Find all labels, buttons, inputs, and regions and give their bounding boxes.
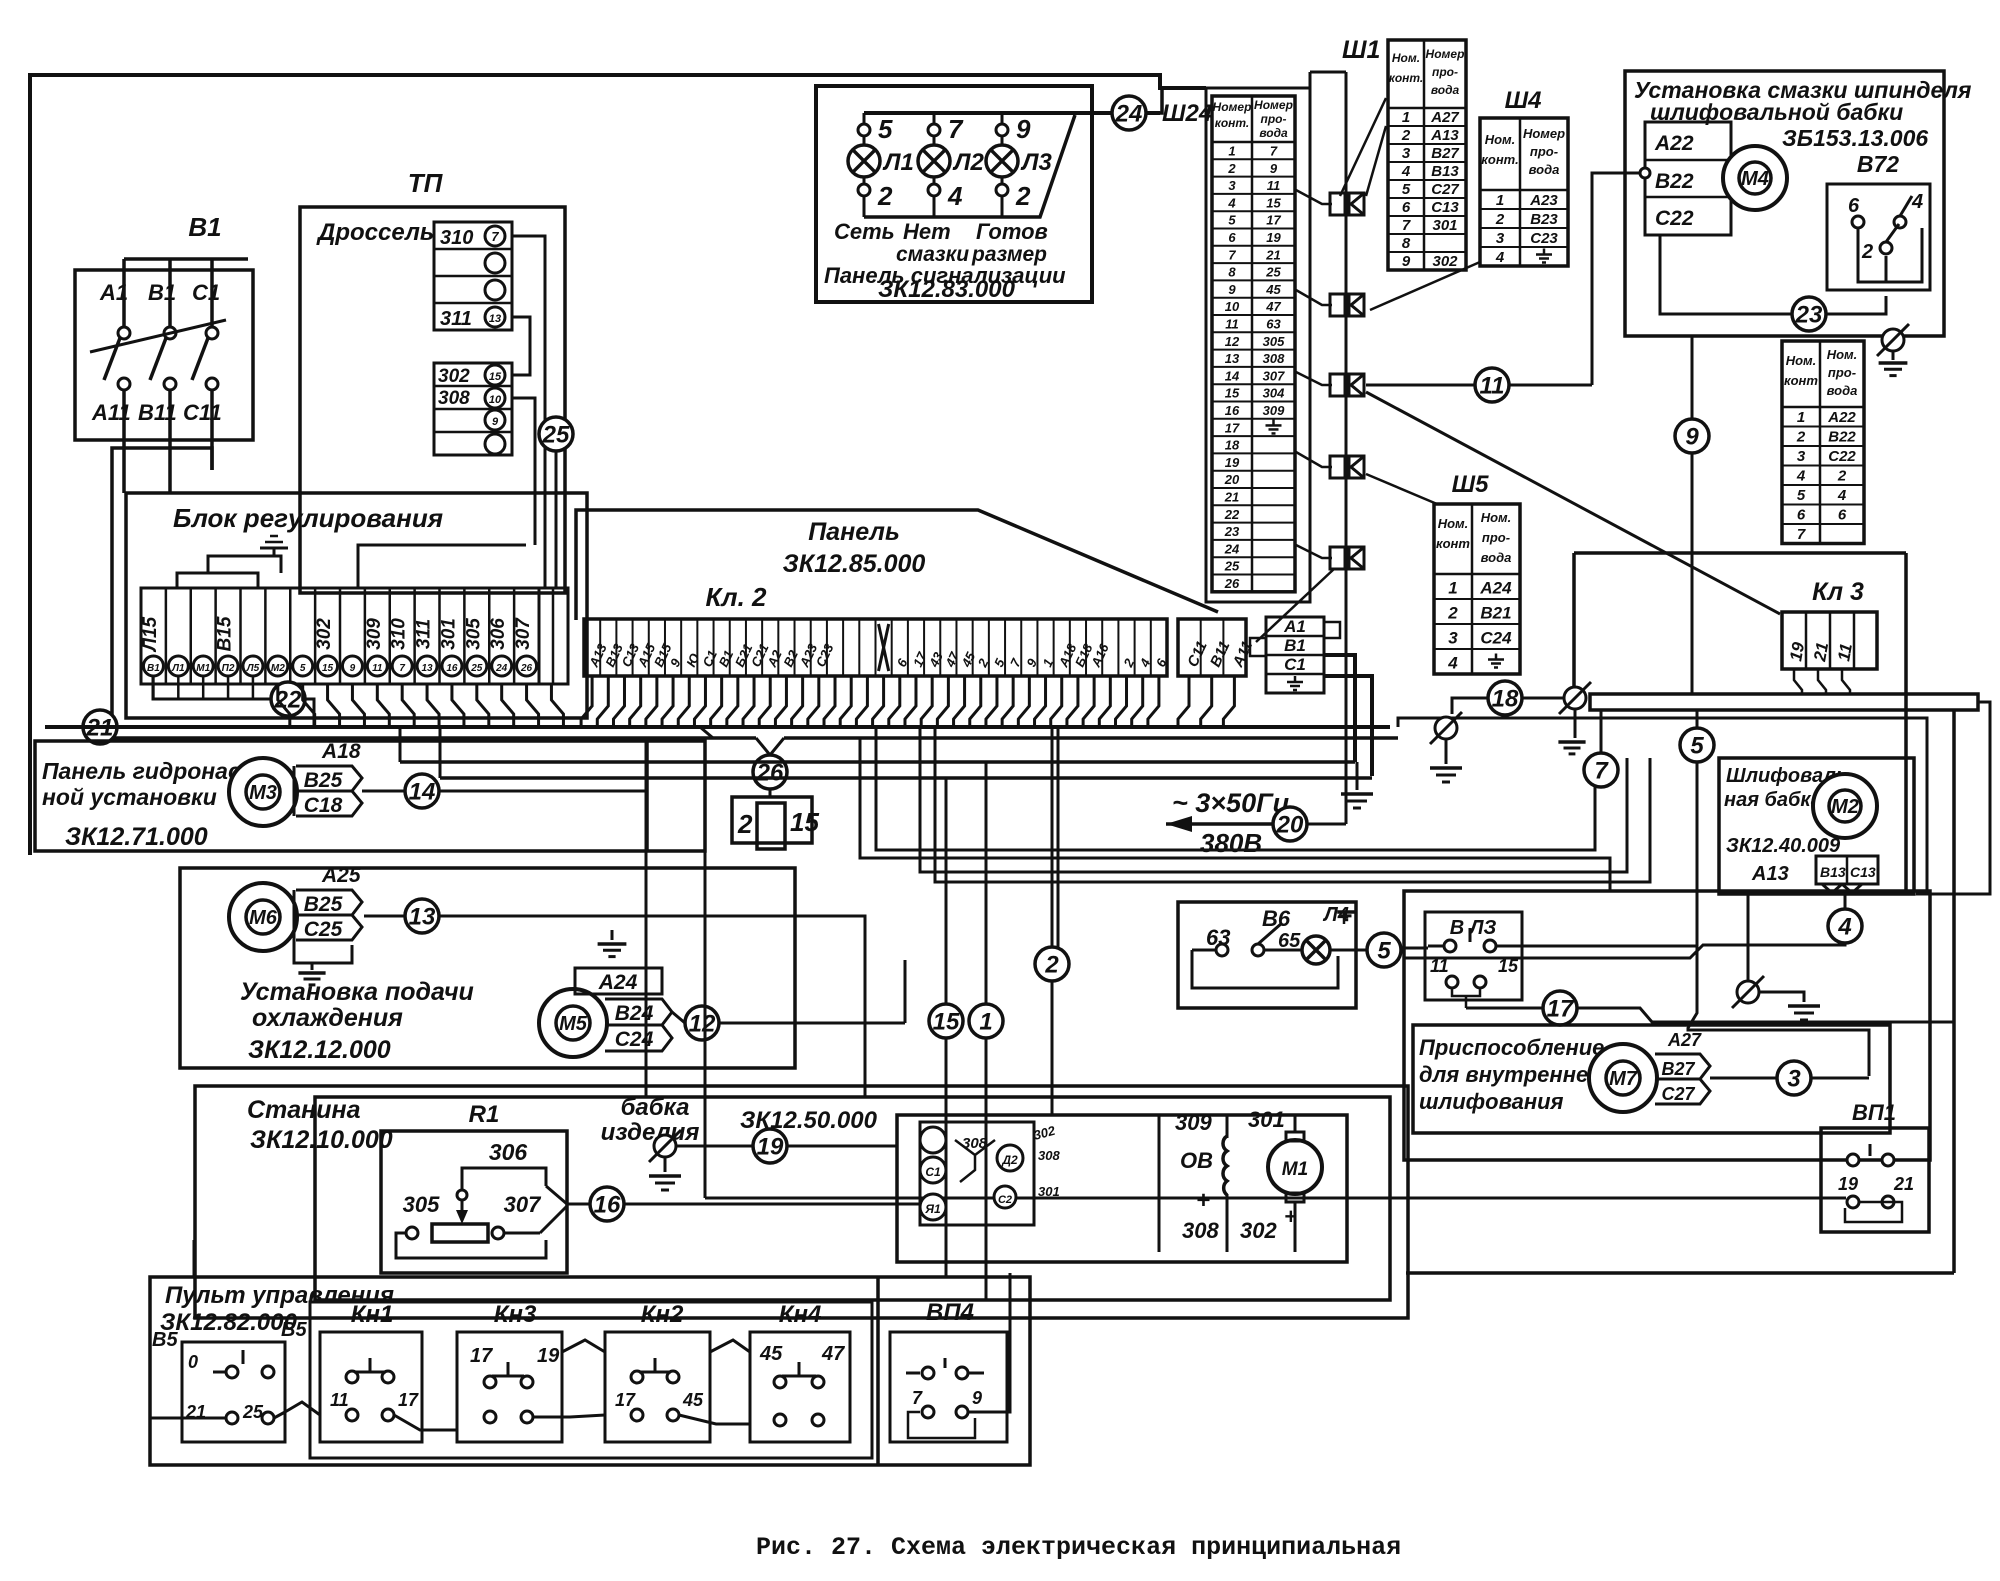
svg-text:9: 9 <box>350 663 356 674</box>
svg-text:308: 308 <box>1182 1218 1219 1243</box>
wire VP4 riser <box>968 1273 1010 1412</box>
wire 19 run <box>676 1145 753 1148</box>
svg-text:302: 302 <box>1240 1218 1277 1243</box>
svg-text:С22: С22 <box>1655 207 1694 230</box>
svg-text:18: 18 <box>1225 438 1240 453</box>
svg-text:В5: В5 <box>281 1319 307 1341</box>
svg-text:11: 11 <box>1267 178 1281 193</box>
svg-text:12: 12 <box>1225 334 1240 349</box>
svg-text:Л1: Л1 <box>882 149 914 176</box>
terminal block A1/B1/C1 <box>1266 617 1324 693</box>
svg-text:4: 4 <box>1495 249 1505 266</box>
svg-text:В13: В13 <box>1431 163 1459 180</box>
svg-text:М1: М1 <box>196 663 210 674</box>
svg-text:В25: В25 <box>304 893 343 916</box>
svg-text:24: 24 <box>1224 541 1240 556</box>
svg-text:7: 7 <box>948 114 964 144</box>
svg-text:Ш1: Ш1 <box>1342 36 1380 64</box>
terminal circle 24 <box>492 656 512 676</box>
svg-text:311: 311 <box>414 619 435 649</box>
circle wire 19 <box>753 1129 787 1163</box>
terminal block A1 side tabs <box>1250 638 1266 656</box>
svg-text:М6: М6 <box>249 907 278 929</box>
connector pair 1 <box>1330 193 1345 215</box>
svg-text:для внутреннего: для внутреннего <box>1419 1062 1613 1087</box>
svg-text:301: 301 <box>1248 1107 1285 1132</box>
svg-text:С2: С2 <box>998 1194 1012 1206</box>
connector table Sh5 <box>1434 504 1520 674</box>
connector table Sh1 <box>1388 40 1466 270</box>
svg-text:2: 2 <box>1044 952 1059 979</box>
svg-text:17: 17 <box>1225 420 1240 435</box>
inductor coil <box>1223 1136 1227 1195</box>
connector pair 3 <box>1330 374 1345 396</box>
svg-text:9: 9 <box>1402 253 1411 270</box>
motor M5 <box>539 989 607 1057</box>
svg-text:5: 5 <box>1690 733 1704 760</box>
svg-text:А11: А11 <box>91 400 131 425</box>
svg-text:В1: В1 <box>188 212 221 242</box>
svg-text:11: 11 <box>1225 316 1239 331</box>
svg-text:М3: М3 <box>249 782 277 804</box>
terminal strip Kl2 right cells C11/B11/A11 <box>1178 619 1246 676</box>
wire 24 to Sh24 <box>1146 88 1162 113</box>
svg-text:С1: С1 <box>925 1165 941 1179</box>
svg-text:15: 15 <box>489 371 502 383</box>
svg-text:23: 23 <box>1795 302 1823 329</box>
wire 7 riser <box>1600 710 1603 753</box>
svg-text:Кн3: Кн3 <box>494 1301 537 1328</box>
svg-text:В27: В27 <box>1431 145 1459 162</box>
wire bottom long y1273 <box>1406 1271 1954 1275</box>
svg-text:А24: А24 <box>1479 579 1512 598</box>
svg-text:2: 2 <box>877 181 893 211</box>
svg-text:4: 4 <box>1911 191 1923 213</box>
svg-text:14: 14 <box>1225 368 1240 383</box>
circle wire 22 <box>271 682 305 716</box>
svg-text:2: 2 <box>1401 127 1411 144</box>
svg-text:С11: С11 <box>183 400 222 425</box>
svg-text:24: 24 <box>1115 101 1143 128</box>
ground above M5 <box>611 930 614 940</box>
ground slash B72 <box>1882 329 1904 351</box>
svg-text:18: 18 <box>1492 686 1519 713</box>
svg-text:7: 7 <box>1797 526 1806 543</box>
svg-text:14: 14 <box>409 779 436 806</box>
svg-text:Ном.: Ном. <box>1438 516 1469 531</box>
svg-text:3: 3 <box>1448 629 1458 648</box>
wire fan regulator strip to bus <box>152 676 155 699</box>
circle wire 18 <box>1488 681 1522 715</box>
svg-text:63: 63 <box>1266 316 1281 331</box>
svg-text:308: 308 <box>1263 351 1285 366</box>
wire 20 to risers <box>1307 823 1346 826</box>
svg-text:конт: конт <box>1436 536 1470 551</box>
svg-text:4: 4 <box>1227 195 1236 210</box>
circle wire 7 <box>1584 753 1618 787</box>
svg-text:19: 19 <box>1838 1174 1858 1194</box>
svg-text:21: 21 <box>1265 247 1280 262</box>
leader lines Sh1 <box>1340 98 1386 196</box>
svg-text:2: 2 <box>1447 604 1458 623</box>
svg-text:конт.: конт. <box>1215 116 1250 130</box>
svg-text:Ш5: Ш5 <box>1452 471 1489 498</box>
terminal block TP lower (302/308) <box>434 363 512 455</box>
svg-text:305: 305 <box>403 1192 440 1217</box>
resistor R1 box <box>381 1131 567 1273</box>
field winding lines <box>1158 1115 1161 1252</box>
circle wire 11 <box>1475 368 1509 402</box>
svg-text:вода: вода <box>1431 83 1460 97</box>
svg-text:4: 4 <box>947 181 963 211</box>
svg-text:16: 16 <box>594 1192 621 1219</box>
svg-text:45: 45 <box>682 1390 704 1410</box>
svg-text:Приспособление: Приспособление <box>1419 1035 1604 1060</box>
svg-text:4: 4 <box>1837 487 1847 504</box>
circle wire 20 <box>1273 807 1307 841</box>
svg-text:ЗБ153.13.006: ЗБ153.13.006 <box>1782 125 1928 151</box>
wire 12 run <box>672 1012 685 1023</box>
svg-text:ОВ: ОВ <box>1180 1148 1213 1173</box>
svg-text:7: 7 <box>399 663 405 674</box>
svg-text:С24: С24 <box>1480 629 1512 648</box>
svg-text:А13: А13 <box>1751 863 1789 885</box>
svg-text:М5: М5 <box>559 1013 588 1035</box>
svg-text:16: 16 <box>446 663 458 674</box>
svg-text:ВП1: ВП1 <box>1852 1100 1896 1125</box>
workhead box <box>315 1097 1390 1300</box>
svg-text:Л5: Л5 <box>246 663 260 674</box>
svg-text:309: 309 <box>1175 1110 1212 1135</box>
svg-text:19: 19 <box>537 1345 560 1367</box>
svg-text:2: 2 <box>1837 468 1847 485</box>
svg-text:В27: В27 <box>1661 1059 1695 1079</box>
ground slash 19 wire <box>654 1135 676 1157</box>
svg-text:Л15: Л15 <box>140 616 161 653</box>
svg-text:19: 19 <box>1266 230 1281 245</box>
svg-text:2: 2 <box>1015 181 1031 211</box>
switch B1 box <box>75 270 253 440</box>
wire fan Kl2 to bus <box>581 676 592 727</box>
switch B72 wiring <box>1858 228 1922 282</box>
svg-text:15: 15 <box>1498 956 1519 976</box>
regulator top jumper boxes <box>177 573 258 588</box>
svg-text:1: 1 <box>1402 109 1410 126</box>
svg-text:11: 11 <box>330 1390 349 1410</box>
wire riser x705 <box>704 738 707 1198</box>
svg-text:А27: А27 <box>1667 1030 1702 1050</box>
svg-text:1: 1 <box>979 1009 992 1036</box>
svg-text:ЗК12.12.000: ЗК12.12.000 <box>248 1036 391 1064</box>
svg-text:Номер: Номер <box>1254 98 1293 112</box>
wire 13 run <box>364 915 405 918</box>
svg-text:Номер: Номер <box>1523 126 1565 141</box>
motor M3 <box>229 758 297 826</box>
console wiring <box>285 1402 320 1415</box>
wire box edge right <box>1904 553 1908 891</box>
svg-text:306: 306 <box>488 618 509 650</box>
svg-text:306: 306 <box>489 1139 528 1165</box>
wire 4 long run <box>1404 937 1845 958</box>
svg-text:Панель: Панель <box>808 518 900 546</box>
svg-text:305: 305 <box>1263 334 1285 349</box>
wire pair y778 <box>440 776 1372 780</box>
svg-text:2: 2 <box>1796 429 1806 446</box>
svg-text:9: 9 <box>1228 282 1236 297</box>
svg-text:26: 26 <box>1224 576 1240 591</box>
svg-text:17: 17 <box>615 1390 636 1410</box>
svg-text:15: 15 <box>1266 195 1281 210</box>
svg-text:М7: М7 <box>1609 1068 1638 1090</box>
svg-text:Л2: Л2 <box>952 149 984 176</box>
svg-text:311: 311 <box>440 308 472 330</box>
svg-text:вода: вода <box>1481 550 1512 565</box>
svg-text:Ном.: Ном. <box>1392 51 1420 65</box>
wire nest h1 <box>876 727 1595 850</box>
terminal block TP upper (310/311) <box>434 222 512 330</box>
svg-text:А25: А25 <box>321 864 361 887</box>
svg-text:М4: М4 <box>1741 168 1769 190</box>
terminal circle 9 <box>342 656 362 676</box>
svg-text:9: 9 <box>972 1388 982 1408</box>
svg-text:Л3: Л3 <box>1020 149 1052 176</box>
svg-text:конт: конт <box>1784 373 1818 388</box>
svg-text:10: 10 <box>489 394 502 406</box>
terminal circle В1 <box>143 656 163 676</box>
motor M6 <box>229 883 297 951</box>
svg-text:изделия: изделия <box>601 1119 700 1146</box>
svg-text:13: 13 <box>489 313 501 325</box>
svg-text:ЗК12.82.000: ЗК12.82.000 <box>160 1309 298 1336</box>
wire 23 run <box>1660 235 1792 314</box>
lamp Л3 branch <box>1001 113 1004 125</box>
svg-text:В5: В5 <box>152 1329 178 1351</box>
bus bar under Kl3 <box>1590 694 1978 710</box>
regulator block box <box>126 493 587 718</box>
svg-text:R1: R1 <box>469 1101 500 1128</box>
terminal X mark <box>879 624 889 671</box>
switch B1 pole 2 wire <box>168 259 172 327</box>
terminal block A24/B24/C24 <box>575 968 662 994</box>
svg-text:С13: С13 <box>1850 864 1876 880</box>
svg-text:+: + <box>1196 1187 1210 1214</box>
svg-text:12: 12 <box>689 1011 716 1038</box>
terminal circle 15 <box>318 656 338 676</box>
wire box edge left <box>1572 553 1576 692</box>
svg-text:5: 5 <box>1228 213 1236 228</box>
wire diagonal connector4 to Sh5 <box>1366 474 1437 504</box>
svg-text:В72: В72 <box>1857 151 1899 177</box>
lamp circuit bottom bus <box>864 115 1075 217</box>
lamp Л1 branch <box>863 113 866 125</box>
svg-text:ЗК12.71.000: ЗК12.71.000 <box>65 823 208 851</box>
ground slash at 1575 <box>1564 687 1586 709</box>
wire 17 run <box>1466 1007 1543 1010</box>
svg-text:В1: В1 <box>148 280 176 305</box>
wire nest h4 <box>935 727 1650 882</box>
svg-text:Рис. 27. Схема электрическая п: Рис. 27. Схема электрическая принципиаль… <box>756 1533 1401 1562</box>
circle wire 26 <box>756 738 770 755</box>
wire 4 stub <box>1844 893 1847 909</box>
svg-text:В23: В23 <box>1530 211 1558 228</box>
wire riser x646 <box>645 738 648 1097</box>
svg-text:21: 21 <box>1810 641 1832 664</box>
wire stubs from Sh24 to connectors <box>1296 190 1332 204</box>
svg-text:шлифования: шлифования <box>1419 1089 1564 1114</box>
svg-text:ТП: ТП <box>408 168 444 198</box>
svg-text:вода: вода <box>1259 126 1288 140</box>
svg-text:Установка подачи: Установка подачи <box>240 978 474 1006</box>
svg-text:С22: С22 <box>1828 448 1856 465</box>
wire Sh4 to connector 2 <box>1370 262 1480 310</box>
svg-text:С13: С13 <box>1431 199 1459 216</box>
wire main bus 21 <box>45 725 1390 729</box>
svg-text:Номер: Номер <box>1213 100 1252 114</box>
internal grinding box <box>1413 1025 1890 1133</box>
svg-text:В1: В1 <box>147 663 160 674</box>
svg-text:22: 22 <box>1224 507 1240 522</box>
terminal circle М2 <box>268 656 288 676</box>
svg-text:охлаждения: охлаждения <box>252 1004 403 1032</box>
regulator terminal strip <box>141 588 539 684</box>
svg-text:24: 24 <box>495 663 508 674</box>
svg-text:25: 25 <box>1224 559 1240 574</box>
motor M4 <box>1723 146 1787 210</box>
wire nest h2 <box>860 738 1610 891</box>
svg-text:конт.: конт. <box>1481 152 1518 167</box>
svg-text:про-: про- <box>1261 112 1287 126</box>
svg-text:25: 25 <box>542 422 570 449</box>
terminal circle 25 <box>467 656 487 676</box>
svg-text:1: 1 <box>1228 143 1235 158</box>
svg-text:11: 11 <box>1834 642 1856 663</box>
wire riser nest left <box>399 727 402 762</box>
wire Sh24 right side <box>1309 72 1312 88</box>
switch B6 wiring <box>1192 949 1216 952</box>
circle wire 12 <box>685 1006 719 1040</box>
svg-text:5: 5 <box>878 114 893 144</box>
wire box edge top <box>1574 551 1906 555</box>
svg-text:9: 9 <box>1016 114 1031 144</box>
switch B1 pole 1 wire <box>122 259 126 327</box>
svg-text:3: 3 <box>1402 145 1411 162</box>
svg-text:15: 15 <box>933 1009 960 1036</box>
svg-text:про-: про- <box>1482 530 1510 545</box>
svg-text:301: 301 <box>438 618 459 650</box>
circle wire 16 <box>590 1187 624 1221</box>
contact dot M4 feed <box>1640 168 1650 178</box>
svg-text:Номер: Номер <box>1426 47 1465 61</box>
svg-text:про-: про- <box>1530 144 1558 159</box>
wire 11 run to lubrication unit <box>1366 384 1475 387</box>
svg-text:13: 13 <box>422 663 434 674</box>
svg-text:ЗК12.85.000: ЗК12.85.000 <box>783 550 926 578</box>
svg-text:1: 1 <box>1496 192 1504 209</box>
wire 2 riser <box>1051 727 1054 947</box>
wire right top bundle <box>1398 718 1927 891</box>
svg-text:23: 23 <box>1224 524 1240 539</box>
svg-text:Я1: Я1 <box>924 1202 941 1216</box>
motor M7 <box>1589 1044 1657 1112</box>
svg-text:С27: С27 <box>1661 1084 1695 1104</box>
signal panel box <box>816 86 1092 302</box>
svg-text:7: 7 <box>1594 758 1609 785</box>
svg-text:47: 47 <box>821 1343 845 1365</box>
svg-text:308: 308 <box>962 1135 988 1152</box>
switch B72 box <box>1827 184 1930 290</box>
svg-text:307: 307 <box>513 617 534 650</box>
svg-text:В25: В25 <box>304 769 343 792</box>
svg-text:308: 308 <box>1038 1148 1060 1163</box>
svg-text:С24: С24 <box>615 1028 654 1051</box>
wire cable Sh1 vertical <box>1345 72 1348 560</box>
svg-text:5: 5 <box>1402 181 1411 198</box>
svg-text:А23: А23 <box>1529 192 1558 209</box>
terminal strip Kl.2 <box>584 619 1167 676</box>
circle wire 3 <box>1777 1061 1811 1095</box>
svg-text:Сеть: Сеть <box>834 219 895 244</box>
wire 3 run <box>1710 1077 1777 1080</box>
circle wire 9 <box>1675 419 1709 453</box>
svg-text:17: 17 <box>470 1345 493 1367</box>
wire regulator riser <box>358 545 526 588</box>
wire right edge M2 area <box>1916 702 1990 894</box>
svg-text:308: 308 <box>438 388 470 409</box>
resistor R1 body <box>432 1224 488 1242</box>
wire 9 vertical <box>1691 336 1694 419</box>
svg-text:Кн1: Кн1 <box>351 1301 394 1328</box>
wire diagonal connector3 to Kl3 <box>1366 392 1780 614</box>
svg-text:6: 6 <box>1797 507 1806 524</box>
motor M1 <box>1268 1140 1322 1194</box>
wire console left feed <box>150 1417 213 1420</box>
switch VP1 box <box>1821 1128 1929 1232</box>
wire 18 run <box>1452 698 1488 714</box>
switch B6 contacts <box>1216 944 1228 956</box>
svg-text:А1: А1 <box>1283 617 1306 636</box>
switch B6 box <box>1178 902 1356 1008</box>
svg-text:ная бабка: ная бабка <box>1724 789 1822 811</box>
wire main cabinet border top/left <box>30 75 1206 855</box>
svg-text:21: 21 <box>1224 489 1239 504</box>
regulator strip extension cells <box>539 588 568 684</box>
svg-text:305: 305 <box>463 618 484 650</box>
wire 5 riser <box>1688 762 1869 1076</box>
svg-text:~ 3×50Гц: ~ 3×50Гц <box>1172 788 1290 818</box>
svg-text:6: 6 <box>1402 199 1411 216</box>
terminal circle Л5 <box>243 656 263 676</box>
svg-text:17: 17 <box>1547 996 1575 1023</box>
svg-text:4: 4 <box>1401 163 1411 180</box>
connector table Sh4 <box>1480 118 1568 266</box>
svg-text:Кл. 2: Кл. 2 <box>705 582 767 612</box>
svg-text:1: 1 <box>1797 409 1805 426</box>
lamp circuit top bus <box>864 111 1160 115</box>
circle wire 21 <box>83 710 117 744</box>
wire TP terminals to right <box>512 236 545 588</box>
terminal circle 11 <box>367 656 387 676</box>
terminal circle 5 <box>293 656 313 676</box>
circle wire 5 right <box>1367 933 1401 967</box>
svg-text:ВП4: ВП4 <box>926 1299 974 1326</box>
wire riser x1058 <box>1057 727 1060 948</box>
circle wire 5 mid <box>1680 728 1714 762</box>
connector pair 5 <box>1330 547 1345 569</box>
wire 5 stub <box>1696 710 1699 728</box>
svg-text:7: 7 <box>912 1388 923 1408</box>
svg-text:309: 309 <box>364 618 385 650</box>
coolant unit box <box>180 868 795 1068</box>
